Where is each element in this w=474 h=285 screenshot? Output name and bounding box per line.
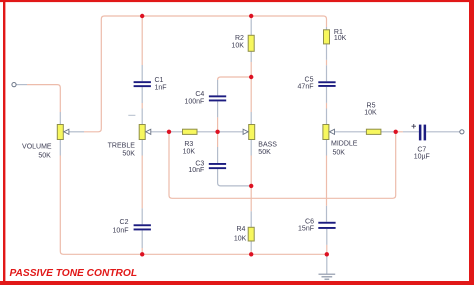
svg-text:C4: C4: [195, 91, 204, 98]
wire input to VOLUME top: [16, 85, 60, 125]
junction treble wiper node: [167, 130, 171, 134]
junction C3 BASS bottom: [249, 184, 253, 188]
capacitor C7 10uF electrolytic: [412, 124, 430, 161]
svg-text:VOLUME: VOLUME: [22, 144, 52, 151]
svg-text:10nF: 10nF: [113, 227, 129, 234]
taper dash TREBLE: [128, 114, 135, 116]
capacitor C6 15nF: [298, 219, 336, 233]
capacitor C2 10nF: [113, 219, 151, 235]
svg-text:R4: R4: [236, 226, 245, 233]
wire MIDDLE wiper to R5: [334, 131, 366, 133]
svg-text:50K: 50K: [122, 150, 135, 157]
svg-text:10K: 10K: [334, 35, 347, 42]
svg-text:R2: R2: [235, 35, 244, 42]
potentiometer VOLUME 50K: [22, 125, 69, 160]
svg-text:50K: 50K: [258, 149, 271, 156]
capacitor C5 47nF: [298, 77, 336, 91]
junction ground rail C2: [140, 252, 144, 256]
wire column through R2 BASS R4: [250, 16, 252, 254]
svg-text:10nF: 10nF: [188, 167, 204, 174]
svg-text:C7: C7: [417, 147, 426, 154]
junction R3 BASS node: [215, 130, 219, 134]
capacitor C4 100nF: [184, 91, 226, 106]
svg-text:100nF: 100nF: [184, 99, 204, 106]
wire C7 to output: [426, 131, 460, 133]
potentiometer TREBLE 50K: [108, 125, 151, 158]
wire VOLUME wiper to top rail: [69, 16, 327, 132]
input terminal: [12, 83, 16, 87]
ground: [319, 254, 336, 279]
svg-text:R5: R5: [367, 102, 376, 109]
svg-text:10K: 10K: [183, 148, 196, 155]
wire column through C1 TREBLE C2: [141, 16, 143, 254]
svg-text:10K: 10K: [364, 110, 377, 117]
junction R5 C7 node: [394, 130, 398, 134]
svg-text:C2: C2: [120, 219, 129, 226]
junction top rail R2: [249, 14, 253, 18]
resistor R4 10K: [234, 226, 254, 242]
capacitor C3 10nF: [188, 161, 226, 174]
svg-text:C1: C1: [155, 77, 164, 84]
wire R3 to BASS wiper: [197, 131, 244, 133]
svg-text:TREBLE: TREBLE: [108, 143, 136, 150]
svg-text:10µF: 10µF: [414, 154, 430, 161]
resistor R5 10K: [364, 102, 381, 134]
svg-text:1nF: 1nF: [155, 85, 167, 92]
svg-text:C5: C5: [305, 77, 314, 84]
svg-text:50K: 50K: [333, 149, 346, 156]
output terminal: [460, 130, 464, 134]
resistor R1 10K: [324, 29, 347, 44]
wire R2 bottom to C4 top: [218, 77, 252, 95]
svg-text:15nF: 15nF: [298, 226, 314, 233]
svg-text:10K: 10K: [231, 43, 244, 50]
junction R2 C4: [249, 75, 253, 79]
wire column through R1 C5 MIDDLE C6: [326, 44, 328, 254]
title PASSIVE TONE CONTROL: [10, 268, 138, 279]
svg-text:MIDDLE: MIDDLE: [331, 141, 358, 148]
junction ground rail R4: [249, 252, 253, 256]
resistor R3 10K: [183, 129, 198, 155]
svg-text:10K: 10K: [234, 236, 247, 243]
svg-text:PASSIVE TONE CONTROL: PASSIVE TONE CONTROL: [10, 268, 138, 279]
junction ground rail C6: [325, 252, 329, 256]
wire lower feedback rail: [169, 134, 396, 199]
potentiometer MIDDLE 50K: [323, 125, 358, 157]
wire column C4 C3: [218, 101, 252, 185]
wire bottom ground rail: [60, 140, 327, 255]
svg-text:BASS: BASS: [258, 142, 277, 149]
svg-text:R3: R3: [184, 141, 193, 148]
wire R5 to C7: [381, 131, 419, 133]
resistor R2 10K: [231, 35, 254, 51]
capacitor C1 1nF: [134, 77, 167, 92]
potentiometer BASS 50K: [243, 125, 277, 156]
svg-text:47nF: 47nF: [298, 84, 314, 91]
junction top rail C1: [140, 14, 144, 18]
wire TREBLE wiper to R3: [151, 131, 183, 133]
svg-text:50K: 50K: [38, 152, 51, 159]
